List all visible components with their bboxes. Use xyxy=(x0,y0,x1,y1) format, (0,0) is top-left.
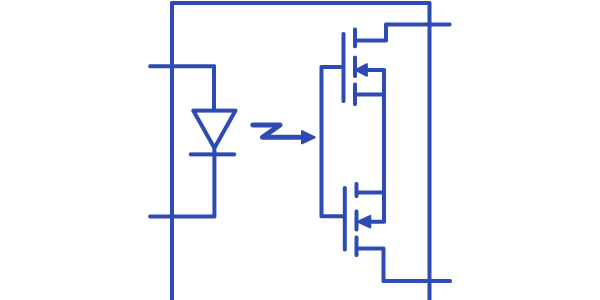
transistor Q2 drain stub + wire to bottom terminal xyxy=(357,249,451,282)
transistor Q2 gate bar xyxy=(343,188,347,250)
LED D1 cathode bar xyxy=(191,152,234,156)
transistor Q1 channel segments xyxy=(353,30,357,105)
transistor Q2 channel segments xyxy=(355,184,359,255)
wire: left input terminal stub (anode side) xyxy=(150,64,214,68)
transistor Q1 body arrow shaft + source link down to Q2 xyxy=(363,70,384,222)
wire: anode lead down to LED xyxy=(212,66,216,110)
transistor Q2 source stub xyxy=(357,191,385,195)
wire: outer frame (left rail, top line, right rail) xyxy=(172,3,430,300)
wire: cathode lead down from LED xyxy=(212,148,216,217)
transistor Q1 body arrow head xyxy=(356,64,367,76)
wire: gate bus connecting both MOSFET gates xyxy=(322,67,345,216)
transistor Q1 gate bar xyxy=(342,34,346,101)
transistor Q1 drain stub + wire to top terminal xyxy=(355,25,450,41)
transistor Q1 source stub xyxy=(355,93,384,97)
wire: left input terminal stub (cathode side) xyxy=(150,215,214,219)
light arrow (zigzag optical coupling symbol) xyxy=(253,125,303,137)
transistor Q2 body arrow head xyxy=(358,216,371,228)
LED D1 triangle (anode top, cathode point down) xyxy=(193,111,235,148)
light arrow head xyxy=(302,131,315,143)
